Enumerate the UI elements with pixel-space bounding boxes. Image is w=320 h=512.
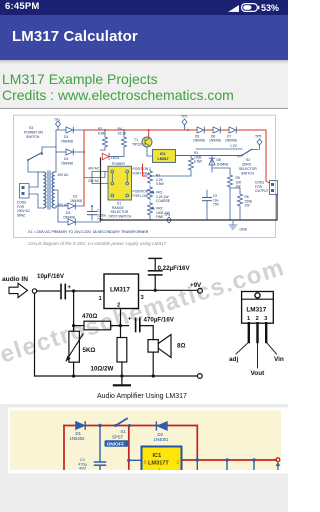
svg-text:FOR HIGH: FOR HIGH [133,172,150,176]
node rectifier junction [98,424,101,427]
svg-text:Vin: Vin [274,356,284,363]
speaker 8 ohm [148,340,158,353]
diode D2 1N4001 [158,422,167,430]
ground rail [35,375,198,377]
diode D1 1N5402 [76,422,84,429]
output terminal [276,458,280,462]
svg-text:T1: T1 [134,138,138,142]
node pin2/R470 junction [119,324,122,327]
svg-text:1: 1 [99,296,103,302]
SCH1 [0,108,288,255]
svg-text:1N5408: 1N5408 [70,199,82,203]
node R470 left junction [72,324,75,327]
wire red right drop [196,426,198,461]
svg-text:8Ω: 8Ω [177,343,185,350]
yellow circuit background [10,411,281,471]
svg-text:GND: GND [240,228,248,232]
svg-text:1N5408: 1N5408 [61,162,73,166]
wire C1 to pin1 [65,290,104,292]
svg-text:TP5: TP5 [255,135,261,139]
svg-text:IC1: IC1 [160,152,166,156]
svg-text:470Ω: 470Ω [82,313,97,320]
svg-text:ON/OFF: ON/OFF [107,442,125,447]
svg-text:0.22µF/16V: 0.22µF/16V [158,265,191,272]
svg-text:SWITCH: SWITCH [241,172,255,176]
svg-text:SELECTOR: SELECTOR [239,167,257,171]
svg-text:0.5W: 0.5W [156,182,165,186]
svg-text:LED1: LED1 [111,156,120,160]
svg-text:1.2V: 1.2V [230,144,238,148]
LED symbol [102,153,109,159]
svg-text:Circuit diagram of the 0-30V,: Circuit diagram of the 0-30V, 1A variabl… [28,241,167,246]
svg-text:0.5W: 0.5W [194,160,203,164]
wire secondary top [55,130,57,172]
node out junctions [196,458,199,461]
wire red mid drop [128,426,130,470]
input block arrow [9,283,28,297]
wire T1 to IC1 [147,147,153,156]
svg-text:16.2K: 16.2K [118,132,128,136]
svg-text:LM317: LM317 [246,307,266,314]
svg-text:D3: D3 [66,211,70,215]
switch S1 SPST [114,424,117,427]
wire S1 left [84,172,108,184]
diode D3 1N5408 [58,221,68,223]
wire C1 drop [99,426,101,462]
output terminal [197,374,202,379]
node speaker/rail junction [152,374,155,377]
wire node A down to R470 row [73,291,75,331]
svg-text:1N5408: 1N5408 [61,140,73,144]
node A junction [72,289,75,292]
svg-text:SWITCH: SWITCH [26,135,40,139]
svg-text:TP4: TP4 [164,213,170,217]
wire red rectifier rail [83,130,85,206]
wire red IC area [143,164,148,176]
wire pot to rail [73,362,75,376]
junction dots top rail [104,129,106,131]
grey app background [0,404,288,512]
watermark electroschematics.com [0,254,288,369]
diode D1 1N5408 [56,129,66,131]
svg-text:TIP127: TIP127 [132,143,143,147]
svg-text:FOR LOW: FOR LOW [133,194,149,198]
diode D5 1N5408 [197,127,204,133]
leader lines [236,342,249,354]
svg-text:75V: 75V [213,203,220,207]
svg-text:1N5402: 1N5402 [70,436,86,441]
schematic frame [14,115,276,237]
svg-text:X1 = 230V AC PRIMARY TO 20V-0-: X1 = 230V AC PRIMARY TO 20V-0-20V, 3A SE… [28,230,149,234]
diode D6 1N5408 [213,127,220,133]
node pot/rail junction [72,374,75,377]
svg-text:POWER: POWER [112,162,125,166]
svg-text:1: 1 [247,316,250,322]
connector CON2 [20,184,30,199]
wire stubs below rail [196,460,198,470]
diode D4 1N5408 [56,151,66,153]
image bottom white margin overlay [8,470,288,474]
svg-text:POWER ON: POWER ON [24,130,43,134]
svg-text:D4: D4 [64,157,68,161]
wire R470 left [74,325,84,327]
svg-text:20V AC: 20V AC [58,173,70,177]
svg-text:LM317: LM317 [110,287,130,294]
wire red top rail [64,425,197,427]
op-amp U1 LM317 box [104,274,139,309]
svg-text:3: 3 [264,316,267,322]
svg-text:1N5408: 1N5408 [209,139,221,143]
svg-text:OUTPUT: OUTPUT [255,189,269,193]
svg-text:20V AC: 20V AC [88,179,100,183]
svg-text:50HZ: 50HZ [17,213,25,217]
svg-text:6.8K: 6.8K [98,132,106,136]
wire pin2 down [120,309,122,338]
capacitor C1 2200u [91,206,93,211]
svg-text:Audio Amplifier Using LM317: Audio Amplifier Using LM317 [97,393,187,400]
image white margin [8,408,288,474]
svg-text:audio IN: audio IN [2,276,28,283]
node pin3 junction [127,459,130,462]
svg-text:S2: S2 [246,158,250,162]
wire red bottom rail [197,459,276,461]
regulator IC1 LM317T [142,447,182,472]
wire R470 right to pin2 wire [111,325,129,327]
transistor Q1 TIP127 [142,137,152,147]
svg-text:adj: adj [229,356,238,363]
wire pin3 to +9V [139,289,198,291]
arrow terminal [277,465,279,470]
wire to pin 3 [129,459,142,461]
capacitor 0.22uF/16V [149,257,162,259]
diode D8 1N5408 [211,156,213,169]
range selector S1 [108,166,132,200]
resistor 10 ohm 2W [117,338,127,363]
diode D2 1N5408 [56,205,68,207]
ground symbol GND [229,220,248,232]
wire cap to speaker [140,326,153,340]
svg-text:1N5408: 1N5408 [63,216,75,220]
wire 10ohm to rail [121,362,123,376]
input terminal node [32,289,36,293]
capacitor C1 470u 40V [95,461,106,463]
wire input down to rail [34,293,36,376]
svg-text:10µF/16V: 10µF/16V [37,273,65,280]
svg-text:1N4001: 1N4001 [154,437,170,442]
svg-text:+: + [128,317,132,323]
SCH3 [0,404,288,512]
TO-220 package LM317 [229,292,284,378]
signal icon [228,5,240,12]
svg-text:IC1: IC1 [153,453,162,459]
wire red vertical left [63,426,65,471]
svg-text:5KΩ: 5KΩ [83,347,96,354]
wire speaker down to rail [152,352,154,376]
regulator IC1 LM317 [153,150,176,163]
package legs [248,323,250,342]
svg-text:D2: D2 [73,195,77,199]
svg-text:SPST: SPST [112,435,124,440]
svg-text:S3: S3 [29,126,33,130]
wire input to C1 [37,290,60,292]
svg-text:1N5408: 1N5408 [225,139,237,143]
ground symbol [121,376,123,385]
svg-text:10Ω/2W: 10Ω/2W [91,366,114,373]
wire red output line [176,155,243,157]
svg-text:TP2: TP2 [181,115,187,119]
wire red rail right drop [266,130,270,183]
battery icon [241,3,260,12]
wire red to T1 [148,130,150,137]
node pin3/cap junction [154,289,157,292]
svg-text:S1: S1 [121,429,127,434]
svg-text:1N5408: 1N5408 [193,139,205,143]
svg-text:ZERO: ZERO [242,163,252,167]
wire D8/S2 row [196,149,242,172]
ON/OFF badge [105,440,129,447]
svg-text:Vout: Vout [251,370,266,377]
wire switch to transformer [28,160,38,172]
svg-text:40V: 40V [79,466,86,471]
LED1 POWER [101,148,106,150]
wire red positive rail [84,130,270,206]
svg-text:2: 2 [117,303,120,309]
svg-text:LM317: LM317 [158,157,169,161]
potentiometer 5K [69,331,80,362]
svg-text:POSITION 2: POSITION 2 [133,167,152,171]
wire CON2 to primary [29,172,38,187]
svg-text:D1: D1 [64,135,68,139]
svg-text:DPDT SWITCH: DPDT SWITCH [109,214,132,218]
node 10ohm/rail junction [120,374,123,377]
diode D7 1N5408 [229,127,236,133]
svg-text:40V AC: 40V AC [88,166,100,170]
transformer X1 [44,172,46,208]
svg-text:COARSE: COARSE [156,199,171,203]
app grey bottom overlay [0,474,288,512]
svg-text:1N5408: 1N5408 [217,162,229,166]
svg-text:2: 2 [256,316,259,322]
SCH2 [0,255,288,404]
wire red pin2 lead [182,459,198,461]
svg-text:470µF/16V: 470µF/16V [144,317,175,324]
svg-text:LM317T: LM317T [148,460,169,466]
svg-text:+: + [68,285,72,291]
capacitor C2 10u [206,190,208,197]
negative rail black [101,158,278,220]
